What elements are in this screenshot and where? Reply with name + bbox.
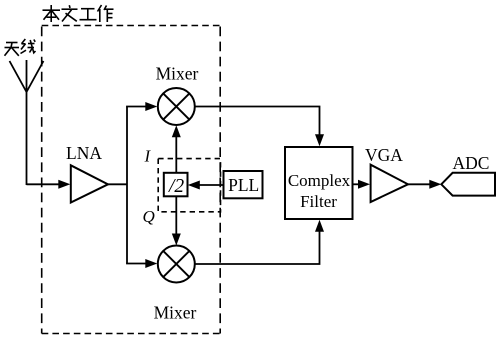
wire to top mixer with arrow (126, 102, 157, 111)
天 (6, 42, 18, 44)
svg-text:/2: /2 (168, 176, 184, 197)
wire LNA output to split node (107, 183, 127, 185)
svg-text:Q: Q (143, 207, 155, 226)
wire VGA to ADC with arrow (407, 180, 441, 189)
工 (81, 8, 95, 10)
amplifier VGA (365, 145, 408, 202)
dashed box: divider I/Q section (158, 159, 220, 212)
mixer (top) (156, 64, 199, 126)
svg-text:LNA: LNA (66, 143, 102, 163)
作 (98, 5, 102, 12)
filter Complex Filter box (285, 147, 353, 219)
svg-text:Filter: Filter (300, 192, 337, 211)
mixer (bottom) (154, 246, 197, 323)
svg-text:PLL: PLL (228, 175, 259, 195)
wire bottom mixer output to complex filter (195, 220, 324, 264)
label 本文工作 (this work) (43, 5, 114, 22)
wire top mixer output to complex filter (195, 107, 324, 147)
oscillator PLL box (224, 171, 263, 198)
wire vertical split line (126, 107, 128, 264)
converter ADC tag (441, 153, 495, 196)
label 天线 (antenna) (5, 39, 36, 56)
文 (68, 5, 71, 8)
线 (22, 39, 26, 44)
本 (43, 9, 61, 11)
wire LO down to bottom mixer with arrow (172, 196, 181, 245)
svg-text:Complex: Complex (288, 171, 351, 190)
wire PLL to divider with arrow (188, 181, 224, 190)
dashed box: outer "this work" boundary (42, 26, 221, 334)
svg-text:Mixer: Mixer (156, 64, 199, 84)
wire LO up into top mixer with arrow (172, 125, 181, 173)
svg-text:ADC: ADC (453, 153, 490, 173)
wire antenna to LNA with arrow (27, 180, 71, 189)
wire to bottom mixer with arrow (126, 259, 157, 268)
wire filter to VGA with arrow (353, 180, 371, 189)
svg-text:Mixer: Mixer (154, 303, 197, 323)
svg-text:VGA: VGA (365, 145, 403, 165)
divider /2 box (164, 173, 188, 197)
amplifier LNA (66, 143, 108, 203)
antenna symbol (10, 60, 44, 185)
